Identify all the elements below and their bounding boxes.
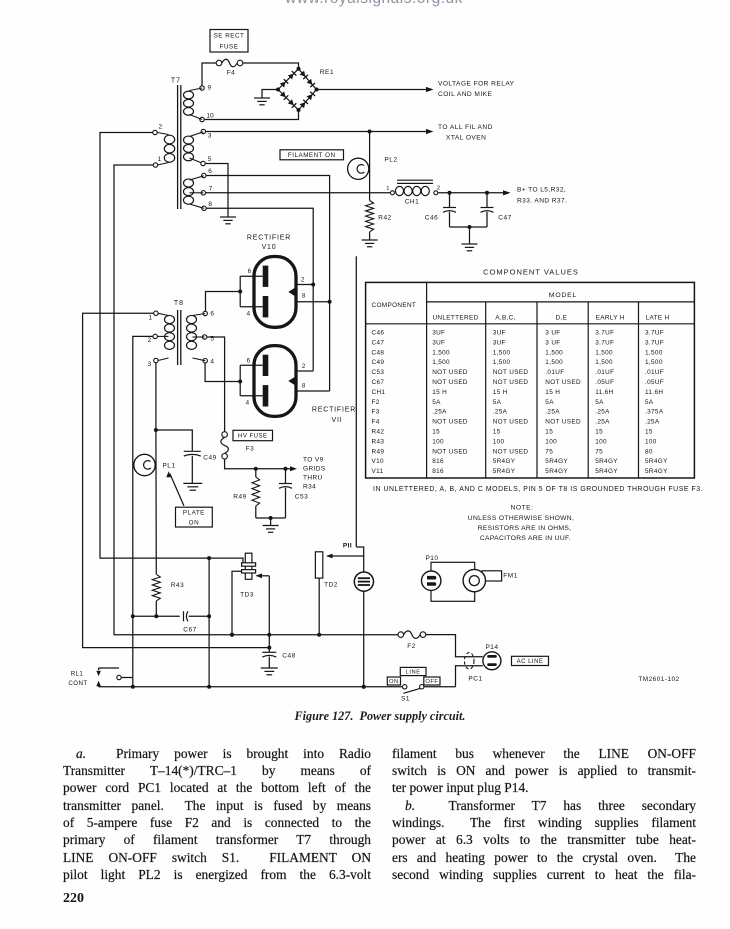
svg-text:LATE H: LATE H [646, 315, 670, 322]
svg-text:1,500: 1,500 [432, 349, 450, 356]
svg-text:3 UF: 3 UF [545, 330, 560, 337]
svg-text:1,500: 1,500 [595, 359, 613, 366]
svg-text:B+ TO L5,R32,: B+ TO L5,R32, [517, 187, 566, 194]
svg-text:1: 1 [148, 315, 152, 322]
svg-text:75: 75 [545, 448, 553, 455]
svg-text:T8: T8 [174, 300, 184, 307]
svg-text:R49: R49 [233, 494, 246, 501]
svg-text:8: 8 [302, 293, 306, 300]
svg-text:5R4GY: 5R4GY [545, 458, 568, 465]
svg-text:1,500: 1,500 [645, 349, 663, 356]
svg-text:15: 15 [432, 429, 440, 436]
svg-text:15 H: 15 H [432, 389, 447, 396]
svg-text:PL1: PL1 [162, 463, 175, 470]
svg-text:IN UNLETTERED, A, B, AND C MOD: IN UNLETTERED, A, B, AND C MODELS, PIN 5… [373, 486, 703, 493]
svg-text:FUSE: FUSE [220, 44, 239, 51]
svg-text:TO V9: TO V9 [303, 457, 324, 464]
svg-text:.01UF: .01UF [645, 369, 664, 376]
svg-text:C67: C67 [183, 627, 196, 634]
svg-text:R42: R42 [372, 429, 385, 436]
svg-text:4: 4 [246, 400, 250, 407]
svg-text:NOT USED: NOT USED [432, 369, 468, 376]
svg-text:5R4GY: 5R4GY [493, 458, 516, 465]
svg-text:3.7UF: 3.7UF [595, 339, 614, 346]
svg-text:100: 100 [493, 438, 505, 445]
svg-text:3: 3 [147, 361, 151, 368]
svg-text:F4: F4 [372, 419, 380, 426]
svg-text:ON: ON [189, 519, 199, 526]
svg-text:UNLESS OTHERWISE SHOWN,: UNLESS OTHERWISE SHOWN, [468, 515, 574, 522]
svg-text:.25A: .25A [595, 409, 610, 416]
svg-text:.05UF: .05UF [645, 379, 664, 386]
svg-text:SE RECT: SE RECT [214, 32, 245, 39]
svg-text:15 H: 15 H [545, 389, 560, 396]
svg-text:F4: F4 [227, 70, 235, 77]
svg-text:75: 75 [595, 448, 603, 455]
svg-text:V11: V11 [372, 468, 384, 475]
svg-text:3.7UF: 3.7UF [595, 330, 614, 337]
svg-text:6: 6 [247, 357, 251, 364]
svg-text:1,500: 1,500 [545, 359, 563, 366]
svg-text:9: 9 [208, 85, 212, 92]
svg-text:TM2601-102: TM2601-102 [638, 676, 679, 683]
svg-text:S1: S1 [401, 696, 410, 703]
svg-text:NOT USED: NOT USED [493, 419, 529, 426]
svg-text:.375A: .375A [645, 409, 664, 416]
svg-text:R43: R43 [372, 438, 385, 445]
svg-text:COMPONENT: COMPONENT [372, 302, 417, 309]
svg-text:5R4GY: 5R4GY [493, 468, 516, 475]
svg-text:TD2: TD2 [324, 582, 338, 589]
svg-text:1: 1 [386, 186, 390, 192]
svg-text:PC1: PC1 [468, 676, 482, 683]
svg-text:NOT USED: NOT USED [432, 448, 468, 455]
svg-text:1,500: 1,500 [545, 349, 563, 356]
svg-text:R34: R34 [303, 484, 316, 491]
svg-text:V10: V10 [372, 458, 385, 465]
svg-text:V10: V10 [262, 244, 277, 251]
svg-text:1,500: 1,500 [595, 349, 613, 356]
svg-text:C46: C46 [372, 330, 385, 337]
svg-text:VOLTAGE FOR RELAY: VOLTAGE FOR RELAY [438, 81, 515, 88]
svg-text:1: 1 [157, 156, 161, 163]
svg-text:F3: F3 [246, 446, 255, 453]
svg-text:2: 2 [302, 363, 306, 370]
svg-text:5R4GY: 5R4GY [645, 468, 668, 475]
svg-text:1,500: 1,500 [645, 359, 663, 366]
svg-text:PL2: PL2 [384, 157, 397, 164]
svg-text:1,500: 1,500 [493, 359, 511, 366]
svg-text:C67: C67 [372, 379, 385, 386]
svg-text:.05UF: .05UF [595, 379, 614, 386]
svg-text:100: 100 [645, 438, 657, 445]
svg-text:10: 10 [207, 113, 215, 120]
svg-text:816: 816 [432, 458, 444, 465]
svg-text:15 H: 15 H [493, 389, 508, 396]
svg-text:AC LINE: AC LINE [517, 659, 544, 665]
svg-text:F2: F2 [407, 643, 416, 650]
svg-text:3UF: 3UF [493, 339, 506, 346]
svg-text:7: 7 [209, 186, 213, 193]
svg-text:6: 6 [208, 168, 212, 175]
svg-text:8: 8 [302, 383, 306, 390]
svg-text:.25A: .25A [432, 409, 447, 416]
svg-text:R42: R42 [378, 215, 391, 222]
svg-text:.25A: .25A [493, 409, 508, 416]
svg-text:5R4GY: 5R4GY [595, 458, 618, 465]
svg-text:NOT USED: NOT USED [545, 379, 581, 386]
svg-text:1,500: 1,500 [432, 359, 450, 366]
svg-text:GRIDS: GRIDS [303, 466, 326, 473]
svg-text:R43: R43 [171, 582, 184, 589]
svg-text:5R4GY: 5R4GY [645, 458, 668, 465]
svg-text:5R4GY: 5R4GY [545, 468, 568, 475]
svg-text:5A: 5A [493, 399, 502, 406]
svg-text:3UF: 3UF [432, 330, 445, 337]
svg-text:100: 100 [432, 438, 444, 445]
svg-text:.25A: .25A [595, 419, 610, 426]
svg-text:5: 5 [208, 156, 212, 163]
svg-text:1,500: 1,500 [493, 349, 511, 356]
svg-text:C46: C46 [425, 215, 438, 222]
svg-text:NOTE:: NOTE: [511, 505, 534, 512]
svg-text:C49: C49 [372, 359, 385, 366]
svg-text:VII: VII [332, 417, 343, 424]
svg-text:11.6H: 11.6H [645, 389, 663, 396]
svg-text:2: 2 [147, 337, 151, 344]
svg-text:C47: C47 [498, 215, 511, 222]
svg-text:4: 4 [210, 359, 214, 366]
svg-text:NOT USED: NOT USED [493, 379, 529, 386]
svg-text:F3: F3 [372, 409, 380, 416]
svg-text:2: 2 [437, 186, 441, 192]
svg-text:R33. AND R37.: R33. AND R37. [517, 198, 567, 205]
svg-text:MODEL: MODEL [549, 292, 577, 299]
svg-text:C48: C48 [372, 349, 385, 356]
svg-text:NOT USED: NOT USED [493, 369, 529, 376]
svg-text:3 UF: 3 UF [545, 339, 560, 346]
svg-text:CH1: CH1 [372, 389, 386, 396]
svg-text:C48: C48 [282, 653, 295, 660]
svg-text:RESISTORS ARE IN OHMS,: RESISTORS ARE IN OHMS, [478, 525, 572, 532]
svg-text:FM1: FM1 [503, 573, 518, 580]
svg-text:11.6H: 11.6H [595, 389, 613, 396]
svg-text:15: 15 [493, 429, 501, 436]
svg-text:TD3: TD3 [240, 592, 254, 599]
svg-text:4: 4 [247, 311, 251, 318]
svg-text:HV FUSE: HV FUSE [238, 434, 268, 440]
svg-text:R49: R49 [372, 448, 385, 455]
svg-text:NOT USED: NOT USED [432, 379, 468, 386]
svg-text:C47: C47 [372, 339, 385, 346]
svg-text:LINE: LINE [406, 670, 421, 676]
svg-text:5A: 5A [545, 399, 554, 406]
svg-text:EARLY H: EARLY H [596, 315, 625, 322]
svg-text:.01UF: .01UF [595, 369, 614, 376]
svg-text:2: 2 [301, 277, 305, 284]
svg-text:100: 100 [595, 438, 607, 445]
svg-text:D,E: D,E [556, 315, 568, 322]
svg-text:C49: C49 [203, 454, 216, 461]
svg-text:3.7UF: 3.7UF [645, 330, 664, 337]
svg-text:RE1: RE1 [320, 69, 334, 76]
svg-text:PLATE: PLATE [183, 509, 205, 516]
svg-text:RL1: RL1 [71, 671, 84, 678]
svg-text:COMPONENT VALUES: COMPONENT VALUES [483, 268, 579, 277]
svg-text:.01UF: .01UF [545, 369, 564, 376]
svg-text:C53: C53 [372, 369, 385, 376]
svg-text:5A: 5A [432, 399, 441, 406]
svg-text:5A: 5A [645, 399, 654, 406]
svg-text:THRU: THRU [303, 475, 323, 482]
svg-text:3.7UF: 3.7UF [645, 339, 664, 346]
svg-text:UNLETTERED: UNLETTERED [432, 315, 478, 322]
svg-text:3UF: 3UF [432, 339, 445, 346]
svg-text:ON: ON [389, 679, 399, 685]
svg-text:6: 6 [210, 311, 214, 318]
svg-text:80: 80 [645, 448, 653, 455]
svg-text:TO ALL FIL AND: TO ALL FIL AND [438, 124, 493, 131]
svg-text:COIL AND MIKE: COIL AND MIKE [438, 91, 492, 98]
svg-text:P14: P14 [485, 644, 498, 651]
svg-text:PII: PII [343, 543, 352, 550]
svg-text:XTAL OVEN: XTAL OVEN [446, 135, 486, 142]
svg-text:RECTIFIER: RECTIFIER [312, 407, 356, 414]
svg-text:15: 15 [645, 429, 653, 436]
svg-text:2: 2 [158, 124, 162, 131]
svg-text:CAPACITORS ARE IN UUF.: CAPACITORS ARE IN UUF. [480, 535, 571, 542]
svg-text:3: 3 [208, 133, 212, 140]
svg-text:100: 100 [545, 438, 557, 445]
svg-text:NOT USED: NOT USED [432, 419, 468, 426]
svg-text:6: 6 [248, 268, 252, 275]
svg-text:.25A: .25A [545, 409, 560, 416]
svg-text:15: 15 [595, 429, 603, 436]
svg-text:RECTIFIER: RECTIFIER [247, 235, 291, 242]
svg-text:FILAMENT ON: FILAMENT ON [288, 152, 336, 159]
svg-text:A,B,C,: A,B,C, [495, 315, 516, 322]
svg-text:816: 816 [432, 468, 444, 475]
svg-text:5R4GY: 5R4GY [595, 468, 618, 475]
svg-text:8: 8 [208, 201, 212, 208]
svg-text:OFF: OFF [425, 679, 438, 685]
svg-text:NOT USED: NOT USED [545, 419, 581, 426]
svg-text:.25A: .25A [645, 419, 660, 426]
svg-text:F2: F2 [372, 399, 380, 406]
svg-text:P10: P10 [425, 555, 438, 562]
svg-text:15: 15 [545, 429, 553, 436]
svg-text:NOT USED: NOT USED [493, 448, 529, 455]
svg-text:CH1: CH1 [405, 199, 420, 206]
svg-text:CONT: CONT [68, 680, 87, 687]
svg-text:3UF: 3UF [493, 330, 506, 337]
svg-text:C53: C53 [295, 494, 308, 501]
svg-text:5A: 5A [595, 399, 604, 406]
svg-text:T7: T7 [171, 78, 181, 85]
